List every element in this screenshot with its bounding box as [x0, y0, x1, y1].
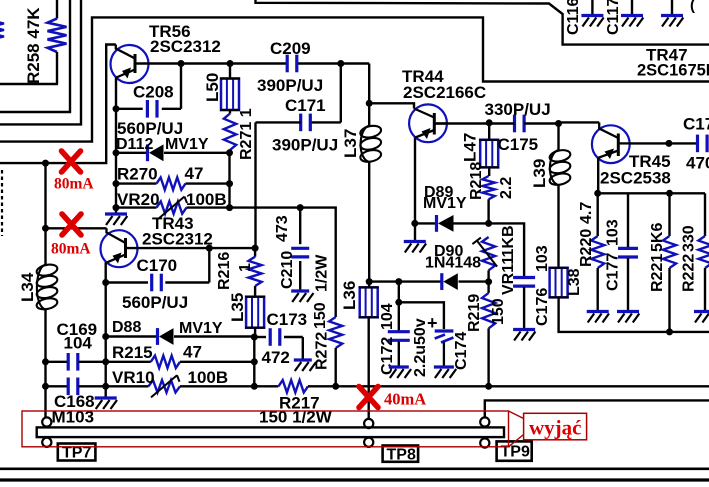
label C208	[133, 83, 174, 102]
label C209	[270, 39, 311, 58]
terminal TP7 bottom	[42, 438, 51, 447]
node R219 bus	[485, 383, 492, 390]
label C175	[498, 135, 539, 154]
label R221 5K6	[649, 223, 666, 252]
label R215 value 47	[183, 343, 202, 362]
node R215 right	[251, 358, 258, 365]
svg-text:L50: L50	[203, 73, 222, 102]
ground C172	[389, 367, 411, 378]
label VR11 1KB	[500, 225, 517, 257]
svg-text:150: 150	[490, 298, 507, 325]
node C170 right top	[206, 245, 213, 252]
wire upper boundary	[256, 0, 709, 45]
label R217	[279, 394, 320, 413]
node L39 top	[555, 120, 562, 127]
ground TR56 rail	[105, 214, 127, 225]
resistor R217	[279, 380, 309, 392]
svg-text:R219: R219	[466, 294, 483, 332]
node C170 left	[102, 279, 109, 286]
label L35	[228, 293, 247, 322]
svg-text:390P/UJ: 390P/UJ	[272, 136, 338, 155]
node C172 top	[395, 278, 402, 285]
test point bus bar	[37, 427, 504, 437]
wire to R272	[300, 208, 336, 317]
resistor R218	[482, 167, 494, 223]
label 2SC1675L	[637, 62, 709, 80]
label D90	[434, 243, 463, 260]
inductor L35	[245, 297, 265, 337]
inductor L34	[36, 263, 59, 311]
svg-text:472: 472	[262, 348, 290, 367]
red removal rectangle	[22, 411, 509, 447]
wire C171 riser left	[254, 122, 256, 247]
resistor R216	[249, 248, 262, 297]
node D89 left	[411, 220, 418, 227]
label D112	[116, 136, 153, 153]
svg-text:104: 104	[379, 303, 396, 330]
capacitor C172	[388, 332, 410, 366]
capacitor C168	[46, 378, 106, 396]
label MV1Y (D89)	[423, 195, 467, 212]
label TR44	[402, 67, 444, 86]
label 560P/UJ (C170)	[122, 293, 188, 312]
svg-text:1: 1	[237, 263, 254, 272]
wire bus right	[308, 385, 709, 387]
label C177	[605, 253, 622, 291]
label L34	[18, 272, 37, 302]
label C169	[57, 320, 98, 339]
svg-text:C210: C210	[279, 251, 296, 289]
svg-text:L36: L36	[340, 281, 359, 310]
label TP8 box	[383, 446, 419, 464]
ground C116	[581, 16, 603, 27]
svg-text:C117: C117	[605, 0, 622, 35]
capacitor C116 lead	[591, 0, 593, 14]
inductor L37	[359, 103, 382, 163]
label MV1Y (D88)	[179, 320, 223, 337]
label C171 value 390P/UJ	[272, 136, 338, 155]
svg-text:C177: C177	[605, 253, 622, 291]
ground R222	[694, 312, 709, 323]
node R272 bottom	[332, 383, 339, 390]
wire 193 row	[598, 192, 705, 194]
svg-text:40mA: 40mA	[384, 390, 426, 409]
label 80mA (2)	[51, 241, 91, 258]
label M103	[52, 408, 95, 427]
diode D88 MV1Y	[106, 328, 255, 345]
inductor L36	[359, 282, 379, 318]
wire L39-L38	[557, 185, 559, 268]
wire C170 riser	[208, 248, 210, 282]
svg-text:R221: R221	[649, 254, 666, 292]
node R218 bottom	[485, 220, 492, 227]
resistor R271	[224, 110, 236, 153]
wire TR43 base feed	[46, 227, 107, 229]
resistor R220	[591, 193, 604, 310]
label C17x value 470	[686, 154, 709, 173]
svg-text:2SC1675L: 2SC1675L	[637, 62, 709, 80]
svg-text:1/2W: 1/2W	[314, 254, 331, 292]
label TR44 type 2SC2166C	[403, 83, 486, 102]
svg-text:C172: C172	[379, 337, 396, 375]
ground C173	[294, 360, 316, 371]
label TR47	[646, 46, 688, 65]
label C117	[605, 0, 622, 35]
label 330P/UJ	[485, 100, 551, 119]
resistor R258	[48, 0, 67, 84]
wire L35-R215 riser	[253, 337, 255, 386]
ground R220	[587, 312, 609, 323]
svg-text:100B: 100B	[186, 190, 227, 209]
svg-text:150: 150	[312, 302, 329, 329]
label C174	[453, 332, 470, 370]
wire VR20 to C210	[230, 206, 301, 208]
svg-text:wyjąć: wyjąć	[529, 416, 581, 440]
resistor R270	[116, 177, 230, 189]
variable resistor VR11	[472, 237, 497, 282]
svg-text:L47: L47	[461, 133, 480, 162]
label R272 150	[312, 302, 329, 329]
label TR56	[149, 22, 191, 41]
svg-text:330: 330	[681, 225, 698, 252]
ground third	[661, 16, 683, 27]
node D90 left	[366, 278, 373, 285]
terminal TP7 top	[42, 417, 51, 426]
X mark 40mA point	[359, 387, 378, 408]
wire L34 to TP7	[44, 309, 46, 418]
label C172 value 104	[379, 303, 396, 330]
wire R258 bottom	[0, 83, 58, 85]
svg-text:R220: R220	[578, 229, 595, 267]
label VR20 value 100B	[186, 190, 227, 209]
label C168	[54, 392, 95, 411]
svg-text:4.7: 4.7	[578, 202, 595, 224]
wire L37 to TR44	[369, 103, 414, 108]
svg-text:2SC2538: 2SC2538	[600, 169, 671, 188]
diode D90 1N4148	[369, 273, 488, 290]
capacitor C175	[489, 115, 558, 133]
svg-text:TP8: TP8	[387, 447, 416, 464]
capacitor C170	[106, 274, 210, 292]
label R216 value 1	[237, 263, 254, 272]
wire bottom line 1	[0, 467, 709, 470]
capacitor C174 (polarized)	[435, 331, 454, 366]
label C209 value 390P/UJ	[257, 76, 323, 95]
wire TP9 riser	[485, 400, 709, 417]
svg-text:C173: C173	[267, 310, 308, 329]
node R270 left	[113, 180, 120, 187]
terminal TP8 bottom	[364, 438, 373, 447]
wire D89 to C176	[489, 223, 524, 276]
node C208 left	[113, 105, 120, 112]
capacitor C210	[291, 208, 309, 290]
terminal TP9 bottom	[480, 438, 489, 447]
wire C208 riser	[180, 64, 182, 109]
label L38	[566, 268, 583, 296]
node L47 top	[486, 119, 493, 126]
svg-text:L34: L34	[18, 272, 37, 302]
capacitor C171	[256, 114, 341, 132]
svg-text:1KB: 1KB	[500, 225, 517, 257]
svg-text:L38: L38	[566, 268, 583, 296]
wire TR43 emitter rail	[104, 262, 106, 396]
svg-text:2SC2312: 2SC2312	[142, 230, 213, 249]
svg-text:C175: C175	[498, 135, 539, 154]
label C210 value 473	[274, 215, 291, 242]
svg-text:MV1Y: MV1Y	[179, 320, 223, 337]
label VR20	[117, 190, 160, 209]
wire mid riser	[228, 153, 230, 208]
wire top to L37	[368, 64, 370, 104]
wire to C174	[399, 302, 444, 329]
wire bus B	[0, 0, 81, 124]
svg-text:2.2u50v: 2.2u50v	[412, 318, 429, 377]
wire bus A	[0, 0, 70, 112]
label R219	[466, 294, 483, 332]
label L47	[461, 133, 480, 162]
label R220	[578, 229, 595, 267]
variable resistor VR20	[116, 197, 230, 219]
wire TR45 base out	[630, 142, 669, 144]
svg-text:C174: C174	[453, 332, 470, 370]
svg-text:L39: L39	[530, 159, 549, 188]
label C177 value 103	[605, 219, 622, 246]
node VR10 left	[102, 383, 109, 390]
svg-text:473: 473	[274, 215, 291, 242]
capacitor C169	[46, 353, 106, 371]
X mark 80mA point 1	[62, 151, 81, 172]
label wyjac box	[524, 413, 587, 440]
label TR56 type 2SC2312	[150, 37, 221, 56]
node R216 top	[252, 245, 259, 252]
ground C177	[617, 312, 639, 323]
svg-text:2.2: 2.2	[498, 177, 515, 199]
capacitor C17x	[669, 135, 707, 153]
capacitor C208	[116, 100, 181, 118]
label C172	[379, 337, 396, 375]
transistor TR56	[111, 45, 149, 84]
svg-text:470: 470	[686, 154, 709, 173]
label C176 value 103	[534, 245, 551, 272]
label C17x	[683, 115, 709, 134]
label 40mA	[384, 390, 426, 409]
ground C174	[434, 367, 456, 378]
red callout line bottom	[509, 435, 524, 447]
label VR10	[112, 368, 155, 387]
svg-text:(: (	[690, 0, 695, 14]
label L39	[530, 159, 549, 188]
label R216	[216, 252, 233, 290]
node 80mA junction 1	[42, 160, 49, 167]
node D88 left	[102, 333, 109, 340]
wire bus mid	[180, 385, 279, 387]
inductor L47	[479, 123, 499, 168]
label C170	[137, 256, 178, 275]
svg-text:R271 1: R271 1	[238, 108, 255, 160]
label C173 value 472	[262, 348, 290, 367]
svg-text:560P/UJ: 560P/UJ	[122, 293, 188, 312]
node TR43 base junction	[42, 225, 49, 232]
node L50 top	[227, 60, 234, 67]
ground TR44	[404, 242, 426, 253]
label C210	[279, 251, 296, 289]
label TR43 type 2SC2312	[142, 230, 213, 249]
label TP9 box	[497, 441, 532, 460]
label R222 330	[681, 225, 698, 252]
label D88	[112, 319, 141, 336]
label TR45	[629, 152, 671, 171]
label R218 value 2.2	[498, 177, 515, 199]
wire third lead	[671, 0, 673, 14]
svg-text:2SC2166C: 2SC2166C	[403, 83, 486, 102]
node C174 branch	[395, 299, 402, 306]
wire TR44 emitter	[414, 138, 416, 241]
X mark 80mA point 2	[62, 214, 81, 235]
resistor R272	[329, 317, 342, 386]
svg-text:80mA: 80mA	[54, 176, 94, 193]
node collector-C208	[178, 60, 185, 67]
svg-text:C171: C171	[285, 96, 326, 115]
svg-text:R270: R270	[117, 165, 158, 184]
svg-text:1N4148: 1N4148	[425, 255, 481, 272]
svg-text:C170: C170	[137, 256, 178, 275]
transistor TR43	[101, 228, 138, 267]
label TP7 box	[58, 444, 96, 462]
label R221	[649, 254, 666, 292]
label R217 value 150 1/2W	[259, 408, 333, 427]
label TR45 type 2SC2538	[600, 169, 671, 188]
svg-text:104: 104	[64, 334, 93, 353]
inductor L38	[549, 268, 569, 298]
svg-text:C116: C116	[565, 0, 582, 35]
inductor L39	[549, 124, 572, 187]
resistor R219	[482, 282, 495, 387]
terminal TP9 top	[480, 417, 489, 426]
svg-text:47: 47	[185, 164, 204, 183]
wire C172 riser	[398, 282, 400, 331]
svg-text:R222: R222	[681, 254, 698, 292]
label 2.2u50v	[412, 318, 429, 377]
wire L34 drop	[44, 163, 46, 264]
svg-text:D88: D88	[112, 319, 141, 336]
label L37	[341, 129, 360, 158]
node VR10 right	[251, 383, 258, 390]
resistor R222	[698, 193, 709, 310]
wire TR56 emitter rail	[115, 78, 117, 213]
red callout line top	[509, 411, 524, 419]
svg-text:L35: L35	[228, 293, 247, 322]
capacitor C173	[254, 328, 302, 358]
label L36	[340, 281, 359, 310]
svg-text:R272: R272	[314, 332, 331, 370]
wire C171 riser right	[340, 64, 342, 123]
label R215	[112, 343, 153, 362]
label TR43	[152, 214, 194, 233]
svg-text:C17: C17	[683, 115, 709, 134]
wire L38 bottom bus	[559, 297, 709, 332]
capacitor C176	[513, 278, 535, 329]
node C169 left	[42, 358, 49, 365]
dashed edge line	[1, 170, 3, 236]
wire L36 to TP8	[368, 317, 370, 419]
wire TR45 emitter	[597, 158, 599, 194]
transistor TR45	[592, 122, 630, 163]
svg-text:MV1Y: MV1Y	[165, 136, 209, 153]
svg-text:103: 103	[605, 219, 622, 246]
svg-text:C208: C208	[133, 83, 174, 102]
label parenthesis	[690, 0, 695, 14]
label C171	[285, 96, 326, 115]
node VR20 left	[113, 204, 120, 211]
node VR11 bottom	[485, 278, 492, 285]
transistor TR44	[409, 104, 447, 142]
label R272	[314, 332, 331, 370]
label R271 1	[238, 108, 255, 160]
wire TR44 base to C175	[434, 122, 489, 124]
node R270 right	[226, 180, 233, 187]
node R220 top	[594, 190, 601, 197]
capacitor C117 lead	[631, 0, 633, 14]
variable resistor VR10	[106, 375, 180, 397]
label R270	[117, 165, 158, 184]
label R220 4.7	[578, 202, 595, 224]
svg-text:5K6: 5K6	[649, 223, 666, 252]
svg-text:MV1Y: MV1Y	[423, 195, 467, 212]
label C116	[565, 0, 582, 35]
svg-text:R218: R218	[468, 162, 485, 200]
label MV1Y (D112)	[165, 136, 209, 153]
label C176	[534, 288, 551, 326]
node R215 left	[102, 358, 109, 365]
ground C117	[621, 16, 643, 27]
label 1N4148	[425, 255, 481, 272]
wire bus C (long top wire)	[0, 17, 709, 141]
node R221 bottom	[666, 328, 673, 335]
node L37 top	[366, 100, 373, 107]
wire L37 bottom	[368, 162, 370, 282]
wire TR45 collector feed	[559, 121, 600, 123]
svg-text:C209: C209	[270, 39, 311, 58]
label VR10 value 100B	[188, 368, 229, 387]
terminal TP8 top	[364, 419, 373, 428]
inductor L50	[220, 64, 240, 111]
wire edge resistor stub (cut at left edge)	[0, 17, 4, 43]
label R219 value 150	[490, 298, 507, 325]
svg-text:TP9: TP9	[501, 444, 530, 461]
node D112 left	[113, 149, 120, 156]
label R272 1/2W	[314, 254, 331, 292]
svg-text:2SC2312: 2SC2312	[150, 37, 221, 56]
node VR20 right	[226, 204, 233, 211]
svg-text:100B: 100B	[188, 368, 229, 387]
svg-text:80mA: 80mA	[51, 241, 91, 258]
label 560P/UJ (C208)	[117, 119, 183, 138]
svg-text:D112: D112	[116, 136, 153, 153]
node R221 top	[666, 190, 673, 197]
node C17x left	[665, 140, 672, 147]
node L35 bottom	[251, 334, 258, 341]
ground C210	[291, 291, 313, 302]
svg-text:R215: R215	[112, 343, 153, 362]
label R218	[468, 162, 485, 200]
svg-text:47: 47	[183, 343, 202, 362]
diode D112 MV1Y	[116, 144, 230, 161]
label VR11	[500, 256, 517, 295]
svg-text:VR20: VR20	[117, 190, 160, 209]
node C171 right top	[337, 60, 344, 67]
resistor R221	[663, 193, 676, 332]
svg-text:R258 47K: R258 47K	[24, 7, 43, 84]
